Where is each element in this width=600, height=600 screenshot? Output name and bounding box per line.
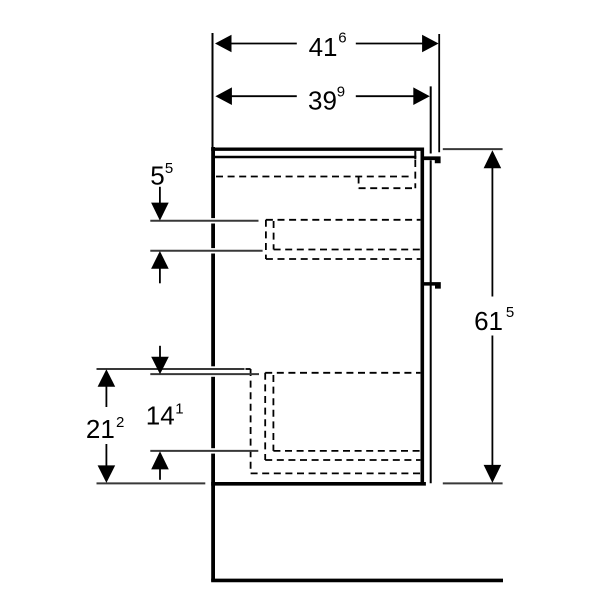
leader line 14.1 top [150, 373, 259, 375]
lower drawer outer box front [264, 373, 266, 460]
extension line 61.5 bottom [443, 482, 503, 484]
dimension 14.1 arrows [151, 346, 169, 480]
svg-text:5: 5 [150, 160, 164, 190]
lower drawer front hidden top dash [246, 368, 251, 370]
lower drawer outer box top [265, 372, 420, 374]
svg-text:39: 39 [308, 86, 337, 116]
svg-text:21: 21 [86, 414, 115, 444]
svg-text:1: 1 [175, 401, 183, 418]
dimension 21.2 vertical [98, 369, 116, 483]
dimension text 5.5 [150, 160, 173, 190]
leader line 14.1 bottom [150, 450, 258, 452]
upper drawer box bottom [274, 249, 421, 251]
dimension text 61.5 [474, 304, 514, 336]
dimension text 39.9 [308, 83, 345, 115]
svg-text:5: 5 [165, 160, 173, 177]
dimension text 41.6 [309, 30, 347, 62]
leader line 21.2 top [97, 368, 245, 370]
leader line 5.5 top [150, 220, 258, 222]
lower drawer outer box bottom [265, 459, 420, 461]
upper drawer hidden outline top [266, 219, 421, 221]
cabinet back edge [420, 148, 424, 486]
wall bracket hook upper [422, 156, 441, 163]
lower drawer inner box bottom [273, 450, 420, 452]
wall bracket hook lower [422, 282, 441, 289]
svg-text:6: 6 [338, 30, 346, 47]
cabinet top inner line [215, 156, 416, 159]
left extension line (front face) [212, 33, 214, 150]
svg-text:9: 9 [337, 83, 345, 100]
hidden rail recess step vertical [358, 177, 360, 189]
svg-text:14: 14 [146, 401, 175, 431]
cabinet top edge [211, 147, 424, 150]
dimension line 41.6 [215, 35, 439, 53]
plinth/side outline below cabinet [211, 579, 503, 583]
svg-text:2: 2 [116, 414, 124, 431]
leader line 21.2 bottom [97, 482, 206, 484]
upper drawer hidden outline bottom [266, 258, 421, 260]
svg-text:61: 61 [474, 306, 503, 336]
hidden rail recess line [216, 176, 412, 178]
svg-text:5: 5 [506, 304, 514, 321]
cabinet bottom edge [211, 482, 426, 486]
top joint tick [414, 151, 416, 160]
upper drawer hidden outline front [265, 220, 267, 259]
hidden rail recess back vertical [414, 160, 416, 188]
lower drawer front hidden outline [250, 369, 252, 473]
lower drawer inner box front [272, 375, 274, 451]
dimension 61.5 vertical [484, 150, 502, 483]
dimension text 21.2 [86, 414, 124, 444]
dimension line 39.9 [215, 87, 429, 105]
extension line 41.6 right [438, 34, 440, 152]
lower drawer front hidden bottom [251, 472, 421, 474]
hidden rail recess bottom [359, 187, 416, 189]
dimension 5.5 arrows [151, 187, 169, 283]
cabinet front panel [211, 147, 215, 582]
extension line 61.5 top [443, 148, 503, 150]
white casing where leader lines cross front panel [210, 218, 217, 454]
dimension text 14.1 [146, 401, 184, 431]
wall mounting rail [430, 86, 432, 153]
leader line 5.5 bottom [150, 250, 262, 252]
upper drawer box front [273, 221, 275, 250]
svg-text:41: 41 [309, 32, 338, 62]
